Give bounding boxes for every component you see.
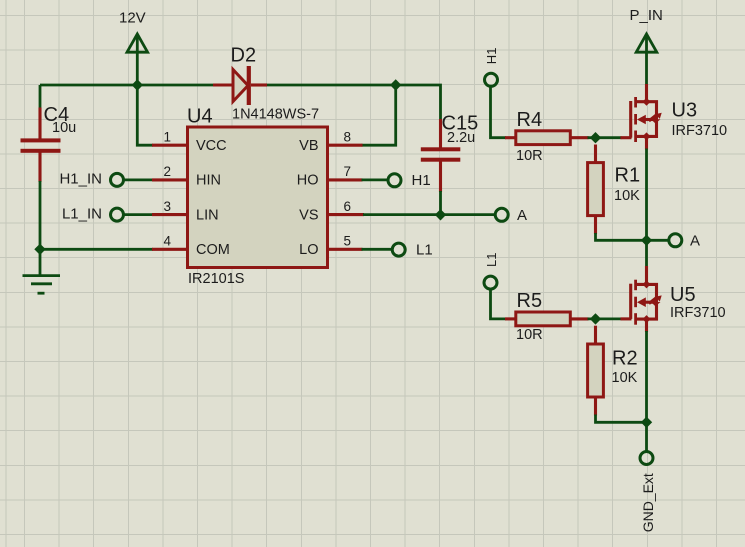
node junction C15 / VS xyxy=(435,209,446,220)
wire C4 branch left vertical xyxy=(39,85,42,276)
resistor R4 xyxy=(516,109,589,164)
transistor U5 IRF3710 xyxy=(631,280,726,332)
svg-text:L1_IN: L1_IN xyxy=(62,205,102,222)
wire R5 to gate U5 xyxy=(588,317,632,320)
node junction 12V stem xyxy=(132,79,143,90)
svg-text:P_IN: P_IN xyxy=(630,7,663,24)
terminal H1_IN xyxy=(59,171,123,188)
wire HIN pin lead xyxy=(124,178,187,181)
svg-text:L1: L1 xyxy=(484,253,499,267)
wire R4 to gate U3 xyxy=(588,136,632,139)
diode D2 xyxy=(213,45,319,123)
terminal L1_IN xyxy=(62,205,124,222)
svg-text:LO: LO xyxy=(299,242,318,258)
power symbol 12V xyxy=(119,10,148,86)
svg-text:10R: 10R xyxy=(516,148,543,164)
wire COM pin lead xyxy=(40,248,187,251)
svg-text:R2: R2 xyxy=(612,348,638,370)
svg-text:U3: U3 xyxy=(672,99,698,121)
svg-text:IRF3710: IRF3710 xyxy=(672,123,728,139)
resistor R5 xyxy=(516,290,589,343)
svg-text:10K: 10K xyxy=(614,188,640,204)
terminal A (VS) xyxy=(495,207,527,224)
wire VS net to A xyxy=(328,213,495,216)
svg-text:GND_Ext: GND_Ext xyxy=(640,473,656,532)
svg-text:COM: COM xyxy=(196,242,230,258)
wire R1 bottom to A node xyxy=(596,149,647,267)
resistor R1 xyxy=(588,145,641,235)
svg-text:VB: VB xyxy=(299,138,318,154)
svg-text:1N4148WS-7: 1N4148WS-7 xyxy=(232,107,319,123)
svg-text:D2: D2 xyxy=(231,45,257,67)
svg-text:10R: 10R xyxy=(516,327,543,343)
svg-text:H1: H1 xyxy=(412,172,431,189)
svg-text:5: 5 xyxy=(344,234,352,249)
svg-text:A: A xyxy=(690,232,700,249)
capacitor C4 xyxy=(21,104,77,153)
terminal A right xyxy=(669,232,700,249)
capacitor C15 xyxy=(421,112,478,214)
svg-text:LIN: LIN xyxy=(196,207,219,223)
svg-text:10K: 10K xyxy=(612,370,638,386)
svg-text:4: 4 xyxy=(163,234,171,249)
node junction source U3 / A xyxy=(641,235,652,246)
wire H1 to R4 xyxy=(491,86,518,138)
transistor U3 IRF3710 xyxy=(631,84,727,150)
terminal GND_Ext xyxy=(640,452,656,533)
wire R2 bottom to GND node xyxy=(596,331,647,451)
svg-text:8: 8 xyxy=(344,130,352,145)
wire LIN pin lead xyxy=(124,213,187,216)
svg-text:10u: 10u xyxy=(52,120,76,136)
svg-text:IRF3710: IRF3710 xyxy=(670,305,726,321)
wire HO pin lead xyxy=(328,178,388,181)
svg-text:1: 1 xyxy=(163,130,171,145)
svg-text:R5: R5 xyxy=(517,290,543,312)
terminal H1 top right xyxy=(484,48,499,87)
svg-text:A: A xyxy=(517,207,527,224)
node junction R4/R1/gate xyxy=(590,132,601,143)
wire VCC pin lead xyxy=(137,85,187,145)
node junction source U5 / GND_Ext xyxy=(641,417,652,428)
terminal L1 (LO) xyxy=(392,242,432,259)
svg-text:2.2u: 2.2u xyxy=(447,130,475,146)
svg-text:R4: R4 xyxy=(517,109,543,131)
wire L1 to R5 xyxy=(491,289,518,319)
terminal L1 bottom left xyxy=(484,253,499,290)
svg-text:HO: HO xyxy=(297,173,319,189)
svg-text:U5: U5 xyxy=(670,284,696,306)
node junction R5/R2/gate xyxy=(590,313,601,324)
svg-text:R1: R1 xyxy=(615,165,641,187)
wire A stub xyxy=(647,239,669,242)
svg-text:7: 7 xyxy=(344,164,352,179)
power symbol P_IN xyxy=(630,7,663,85)
svg-text:H1: H1 xyxy=(484,48,499,65)
svg-text:3: 3 xyxy=(163,199,171,214)
svg-text:12V: 12V xyxy=(119,10,146,27)
node junction top wire / VB riser xyxy=(390,79,401,90)
svg-text:VS: VS xyxy=(299,207,318,223)
wire U3 source to U5 drain xyxy=(645,266,648,284)
terminal H1 (HO) xyxy=(388,172,431,189)
svg-text:IR2101S: IR2101S xyxy=(188,271,244,287)
wire LO pin lead xyxy=(328,248,392,251)
wire top net 12V horizontal xyxy=(40,85,441,120)
wire VB riser xyxy=(328,85,396,145)
node junction COM / C4 xyxy=(34,244,45,255)
svg-text:H1_IN: H1_IN xyxy=(59,171,102,188)
svg-text:2: 2 xyxy=(163,164,171,179)
svg-text:L1: L1 xyxy=(416,242,433,259)
svg-text:HIN: HIN xyxy=(196,173,221,189)
svg-text:6: 6 xyxy=(344,199,352,214)
ground xyxy=(23,276,61,294)
svg-text:VCC: VCC xyxy=(196,138,227,154)
IC U4 IR2101S xyxy=(163,106,351,287)
resistor R2 xyxy=(588,326,638,416)
svg-text:U4: U4 xyxy=(187,106,213,128)
